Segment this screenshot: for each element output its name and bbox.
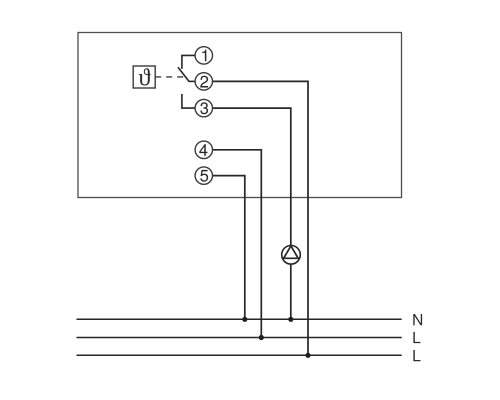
switch blade <box>178 67 189 81</box>
terminal 2 <box>195 73 212 90</box>
thermostat sensor box <box>133 66 155 88</box>
wire: terminal 1 leg <box>182 55 196 69</box>
wire from terminal 4 to middle L <box>211 150 261 338</box>
mains line N <box>77 318 402 320</box>
junction: wire4 to L middle <box>259 335 264 340</box>
terminal 3 <box>195 99 212 116</box>
mains line L (middle) <box>77 337 402 339</box>
junction: wire2 to L bottom <box>305 353 310 358</box>
terminal 1 <box>195 47 212 64</box>
thermostat theta symbol <box>139 68 151 85</box>
wire: stub to terminal 2 <box>189 80 196 82</box>
device outline box <box>78 33 402 198</box>
dashed actuator link <box>155 76 186 78</box>
wire: terminal 3 leg <box>182 94 195 108</box>
label L middle <box>413 332 420 343</box>
wire from terminal 2 to bottom L <box>213 81 309 355</box>
junction: wire5 to N <box>242 317 247 322</box>
mains line L (bottom) <box>77 354 402 356</box>
wire from terminal 5 to N <box>213 176 245 320</box>
pump M1 <box>282 246 301 265</box>
label L bottom <box>413 350 420 361</box>
label N <box>413 314 422 325</box>
terminal 4 <box>195 141 212 158</box>
junction: pump wire to N <box>288 317 293 322</box>
terminal 5 <box>195 167 212 184</box>
wire from terminal 3 through pump to N <box>212 108 290 319</box>
